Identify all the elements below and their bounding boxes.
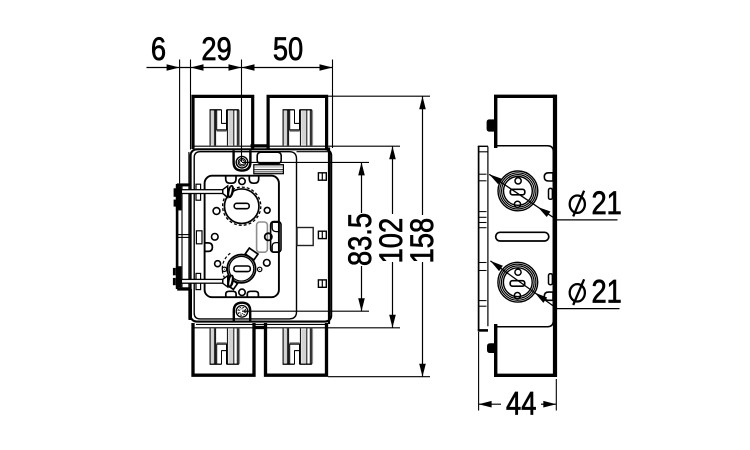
H-rail bottom-right: [283, 329, 314, 365]
side flange step line: [479, 151, 488, 153]
extension line x=190.5: [190, 60, 192, 150]
arrow at 179.6 right: [167, 64, 180, 71]
front flange top cap: [177, 183, 191, 186]
top screw boss pocket: [234, 151, 251, 171]
screw 1 clamp tab black: [174, 186, 182, 210]
lower outlet slot: [234, 266, 250, 272]
face rect R1: [196, 184, 201, 200]
front flange bottom cap: [177, 287, 191, 290]
svg-text:44: 44: [506, 386, 536, 422]
screw 1 shank: [181, 190, 222, 194]
upper outlet dashed ring: [223, 187, 261, 225]
screw 2 shank: [181, 279, 222, 283]
screw 1 head: [226, 184, 235, 198]
side middle long slot: [496, 232, 549, 241]
side knockout 1 slot: [510, 189, 525, 195]
arrow at 241.5 right: [229, 64, 242, 71]
side knockout 1 rings: [498, 171, 538, 211]
small circle C: [212, 234, 219, 241]
right edge clip 3: [318, 280, 326, 287]
svg-text:29: 29: [201, 32, 231, 68]
44 arrows: [479, 401, 557, 408]
bottom screw boss circles: [236, 306, 248, 318]
rear shell top edge line: [193, 145, 400, 147]
right edge clip 2: [318, 231, 326, 238]
lower outlet lug top-right: [245, 248, 258, 260]
lower outlet rings: [227, 255, 255, 283]
44 dim line: [479, 403, 557, 405]
central cluster gray slot: [257, 222, 268, 252]
dim text 83.5: [343, 213, 379, 266]
top bridge between brackets: [251, 144, 270, 147]
side back wall thick: [553, 95, 557, 377]
side wall slot 2: [549, 274, 553, 285]
face top inner line right part: [297, 151, 329, 153]
face rect R3: [196, 273, 201, 289]
svg-text:21: 21: [592, 186, 622, 222]
bottom bridge between brackets: [253, 326, 268, 329]
side wall tab 2: [544, 292, 553, 300]
shell left thin line: [188, 152, 190, 320]
small circle E: [215, 261, 221, 267]
extension line x=332.5: [332, 60, 334, 149]
side flange bottom cap: [478, 329, 488, 332]
striped bar: [254, 165, 284, 174]
screw 2 trumpet: [223, 276, 228, 287]
inner opening rounded rect: [205, 176, 279, 298]
arrows 83.5: [358, 162, 365, 311]
svg-text:50: 50: [273, 32, 303, 68]
face bottom outside line: [196, 323, 326, 325]
extension line y=96.2: [328, 95, 430, 97]
opening tab left edge: [205, 243, 213, 252]
extension line y=376.7: [328, 376, 430, 378]
shell right thick line: [328, 148, 330, 325]
opening tab bottom 1: [226, 291, 236, 297]
dim text 158: [405, 218, 441, 264]
face cover raised area outline: [194, 152, 296, 319]
dim line 83.5: [361, 162, 363, 311]
H-rail top-right: [283, 110, 314, 146]
opening tab top 1: [226, 176, 236, 184]
screw 2 clamp tab black: [173, 266, 182, 287]
small circle below top boss: [239, 178, 245, 184]
lower outlet tick circle left: [222, 267, 226, 271]
extension line y=311.2: [242, 310, 369, 312]
side clip top black: [487, 119, 496, 131]
bracket top-right: [268, 96, 327, 149]
phi21 symbol 1: [570, 191, 585, 217]
phi21 leader 1 arrows: [487, 172, 550, 217]
side knockout 2 rings: [498, 262, 538, 302]
lower outlet lug bottom-left: [225, 277, 238, 289]
right edge clip 1: [318, 173, 326, 180]
top screw boss circles: [236, 156, 248, 168]
svg-text:6: 6: [151, 32, 166, 68]
side clip bottom black: [487, 343, 497, 353]
front flange divider lines: [177, 235, 190, 238]
phi21 text 2: [592, 274, 622, 310]
side knockout 1 small circles: [514, 178, 521, 208]
screw 2 head: [226, 274, 235, 288]
small circle B: [264, 207, 270, 213]
phi21 text 1: [592, 186, 622, 222]
bracket bottom-right: [266, 323, 327, 375]
arrow at 332.5 right: [320, 64, 333, 71]
side knockout 2 small circles: [514, 269, 521, 299]
side wall tab 1: [544, 173, 553, 181]
extension line y=162.4: [242, 161, 369, 163]
svg-text:158: 158: [405, 218, 441, 264]
side bracket top: [496, 96, 555, 148]
arrows 102: [389, 146, 396, 328]
side wall slot 1: [549, 188, 553, 199]
extension line x=241.5: [241, 60, 243, 163]
dim text 44: [506, 386, 536, 422]
lower outlet tick circle right: [258, 267, 262, 271]
svg-text:21: 21: [592, 274, 622, 310]
phi21 symbol 2: [570, 279, 585, 305]
side flange top cap: [478, 145, 488, 147]
arrow at 241.5 left: [242, 64, 255, 71]
central cluster circle: [265, 233, 272, 240]
dim line 158: [422, 96, 424, 377]
side bracket bottom: [496, 324, 555, 375]
square hole right face: [297, 228, 313, 246]
extension line x=179.6: [179, 60, 181, 184]
face rect R2: [196, 231, 202, 244]
upper outlet slot: [234, 203, 249, 208]
side flange dividers: [479, 174, 487, 306]
dim text 50: [273, 32, 303, 68]
side knockout 2 slot: [510, 281, 525, 287]
side plate left edge: [487, 147, 489, 327]
dim line 102: [392, 146, 394, 328]
44 extension right: [555, 379, 557, 411]
bracket bottom-left: [193, 323, 254, 375]
opening tab top 2: [249, 176, 258, 184]
front flange left edge: [176, 184, 179, 289]
small circle A: [213, 208, 220, 215]
central cluster black frame: [271, 222, 281, 253]
dim text 29: [201, 32, 231, 68]
small circle above bottom boss: [239, 289, 245, 295]
lower outlet dashed arc: [222, 253, 230, 284]
dimension line top: [147, 67, 333, 69]
H-rail top-left: [210, 110, 241, 146]
face left edge thick below flange: [189, 289, 192, 320]
opening tab bottom 2: [247, 291, 258, 297]
dim text 6: [151, 32, 166, 68]
front flange inner line: [181, 186, 183, 289]
rear shell bottom edge line (102 extension): [193, 327, 400, 329]
bracket top-left: [193, 96, 253, 149]
arrow at 190.5 left: [191, 64, 204, 71]
phi21 leader 2: [490, 261, 619, 309]
side plate outline: [496, 146, 554, 327]
phi21 leader 2 arrows: [488, 258, 547, 303]
side flange outer: [478, 146, 480, 331]
box face outer rounded rect: [191, 149, 332, 321]
top-right slot: [257, 152, 281, 163]
upper outlet inner ring: [224, 189, 259, 224]
small circle F: [264, 260, 271, 267]
arrows 158: [419, 96, 426, 377]
screw 1 trumpet: [223, 186, 228, 197]
44 extension left: [478, 332, 480, 411]
H-rail bottom-left: [210, 329, 241, 365]
phi21 leader 1: [489, 174, 617, 220]
bottom screw boss pocket: [234, 303, 250, 321]
dim text 102: [374, 218, 410, 264]
